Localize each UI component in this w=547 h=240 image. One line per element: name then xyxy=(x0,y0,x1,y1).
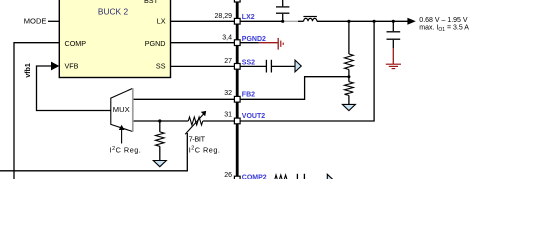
svg-text:VFB: VFB xyxy=(65,61,79,70)
svg-text:LX2: LX2 xyxy=(242,14,255,21)
svg-text:32: 32 xyxy=(224,90,232,97)
svg-text:VOUT2: VOUT2 xyxy=(242,113,265,120)
svg-text:MUX: MUX xyxy=(113,105,130,114)
svg-text:SS2: SS2 xyxy=(242,59,255,66)
svg-text:FB2: FB2 xyxy=(242,91,255,98)
svg-text:LX: LX xyxy=(157,16,166,25)
svg-text:COMP2: COMP2 xyxy=(242,174,267,179)
svg-text:7-BIT: 7-BIT xyxy=(189,135,206,144)
svg-text:27: 27 xyxy=(224,58,232,65)
svg-text:3,4: 3,4 xyxy=(222,35,232,42)
svg-text:COMP: COMP xyxy=(65,39,87,48)
svg-text:28,29: 28,29 xyxy=(214,13,232,20)
svg-text:PGND2: PGND2 xyxy=(242,36,266,43)
svg-text:BST: BST xyxy=(144,0,159,5)
svg-text:BUCK 2: BUCK 2 xyxy=(98,6,129,16)
svg-text:PGND: PGND xyxy=(145,39,166,48)
svg-text:SS: SS xyxy=(156,61,166,70)
svg-text:31: 31 xyxy=(224,112,232,119)
svg-text:0.68 V – 1.95 V: 0.68 V – 1.95 V xyxy=(419,17,468,24)
svg-text:MODE: MODE xyxy=(24,17,47,26)
svg-text:vfb1: vfb1 xyxy=(25,63,32,78)
svg-text:26: 26 xyxy=(224,172,232,179)
